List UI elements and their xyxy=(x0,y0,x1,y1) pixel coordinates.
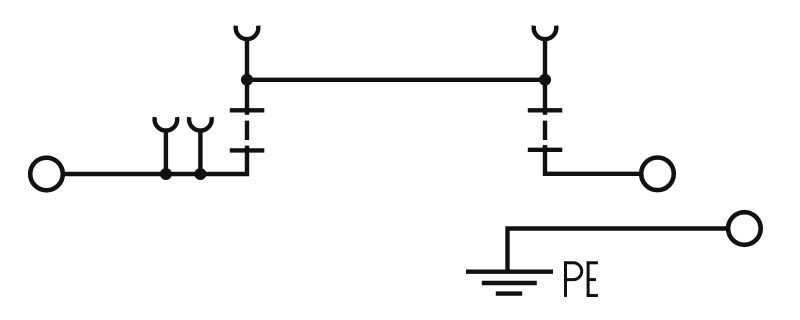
left disconnect upper stem xyxy=(245,80,249,115)
label PE letter E xyxy=(587,261,598,297)
top fork (bus tap) right arc xyxy=(534,26,557,39)
terminal circle X3 (PE conductor) xyxy=(728,212,761,245)
right disconnect lower bar xyxy=(528,148,563,152)
wire from X1 to left disconnect lower stem xyxy=(64,146,247,174)
label PE letter P xyxy=(564,261,582,297)
right disconnect upper bar xyxy=(528,108,563,112)
ground bar 2 xyxy=(482,281,537,285)
top fork left stem xyxy=(245,38,249,80)
right disconnect dashed link xyxy=(543,121,547,140)
PE wire from X3 to ground xyxy=(508,229,727,270)
ground bar 1 xyxy=(466,270,553,274)
junction dot at fork B xyxy=(194,168,206,180)
junction dot node L xyxy=(241,74,253,86)
top fork right stem xyxy=(543,38,547,80)
main bus wire xyxy=(247,78,545,82)
left disconnect lower bar xyxy=(230,148,264,152)
test tap fork B stem xyxy=(198,130,202,174)
left disconnect upper bar xyxy=(230,108,264,112)
test tap fork A stem xyxy=(164,130,168,174)
junction dot node R xyxy=(539,74,551,86)
right disconnect upper stem xyxy=(543,80,547,115)
terminal circle X2 (right conductor exit) xyxy=(641,158,674,191)
ground bar 3 xyxy=(496,291,522,295)
junction dot at fork A xyxy=(160,168,172,180)
terminal circle X1 (left conductor entry) xyxy=(30,158,63,191)
top fork (bus tap) left arc xyxy=(236,26,259,39)
test tap fork A arc xyxy=(155,117,178,130)
left disconnect dashed link xyxy=(245,121,249,140)
test tap fork B arc xyxy=(189,117,212,130)
wire from right disconnect to terminal circle X2 xyxy=(545,145,640,174)
